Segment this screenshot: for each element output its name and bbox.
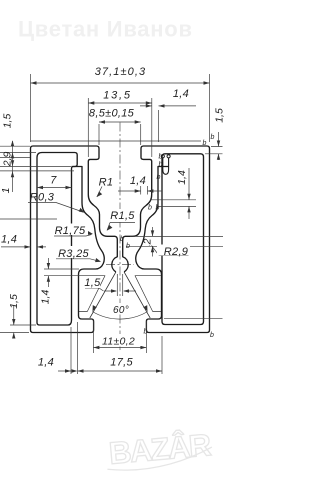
svg-text:b: b xyxy=(210,332,214,339)
svg-text:b: b xyxy=(120,236,124,243)
svg-text:b: b xyxy=(203,140,207,147)
svg-text:1,4: 1,4 xyxy=(176,170,188,185)
svg-text:R2,9: R2,9 xyxy=(164,246,188,258)
svg-text:1,5: 1,5 xyxy=(2,114,14,129)
svg-text:8,5±0,15: 8,5±0,15 xyxy=(89,108,135,120)
svg-text:R1: R1 xyxy=(99,177,114,189)
svg-text:b: b xyxy=(148,205,152,212)
svg-text:b: b xyxy=(211,134,215,141)
svg-text:b: b xyxy=(126,243,130,250)
svg-text:1,5: 1,5 xyxy=(84,277,101,289)
svg-text:b: b xyxy=(159,162,163,169)
svg-text:7: 7 xyxy=(50,175,57,187)
svg-text:Цветан Иванов: Цветан Иванов xyxy=(18,17,192,42)
svg-text:b: b xyxy=(156,205,160,212)
svg-text:R0,3: R0,3 xyxy=(30,192,55,204)
svg-text:13,5: 13,5 xyxy=(103,90,132,102)
svg-text:b: b xyxy=(159,154,163,161)
svg-text:1,5: 1,5 xyxy=(214,108,225,123)
svg-text:R3,25: R3,25 xyxy=(58,248,89,260)
svg-text:2: 2 xyxy=(142,238,154,245)
svg-text:60°: 60° xyxy=(113,305,129,316)
svg-text:1,4: 1,4 xyxy=(40,290,52,305)
svg-text:R1,75: R1,75 xyxy=(55,225,86,237)
svg-text:1,4: 1,4 xyxy=(1,234,17,246)
svg-text:37,1±0,3: 37,1±0,3 xyxy=(95,66,147,78)
svg-text:17,5: 17,5 xyxy=(110,357,133,369)
svg-text:1,5: 1,5 xyxy=(8,294,20,309)
svg-text:2,9: 2,9 xyxy=(2,152,14,168)
svg-text:b: b xyxy=(144,329,148,336)
svg-text:11±0,2: 11±0,2 xyxy=(102,336,135,348)
svg-text:R1,5: R1,5 xyxy=(110,210,135,222)
svg-text:b: b xyxy=(157,174,161,181)
svg-text:1: 1 xyxy=(0,188,12,194)
svg-text:1,4: 1,4 xyxy=(38,357,54,369)
svg-text:1,4: 1,4 xyxy=(130,175,146,187)
svg-text:1,4: 1,4 xyxy=(173,88,189,100)
